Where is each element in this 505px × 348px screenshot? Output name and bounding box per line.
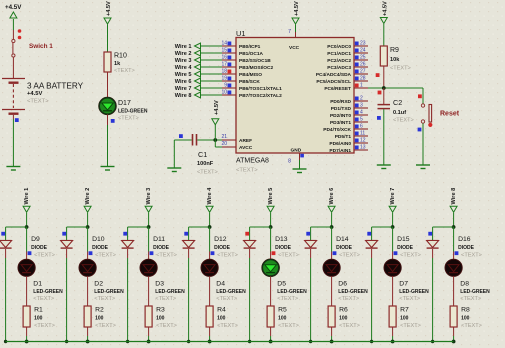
svg-text:<TEXT>: <TEXT> (338, 296, 359, 302)
svg-text:GND: GND (291, 148, 302, 154)
svg-text:<TEXT>: <TEXT> (400, 253, 421, 259)
svg-text:PD5/T1: PD5/T1 (335, 134, 352, 140)
svg-text:18: 18 (221, 69, 227, 75)
svg-text:PB5/SCK: PB5/SCK (239, 79, 260, 85)
svg-text:D17: D17 (118, 100, 131, 107)
svg-text:19: 19 (221, 76, 227, 82)
svg-text:100: 100 (34, 316, 43, 322)
svg-text:D7: D7 (399, 281, 408, 288)
svg-text:Wire 2: Wire 2 (175, 51, 192, 57)
svg-text:<TEXT>: <TEXT> (400, 323, 421, 329)
svg-text:DIODE: DIODE (458, 245, 475, 251)
svg-text:PC5/ADC5/SCL: PC5/ADC5/SCL (316, 79, 351, 85)
svg-text:D12: D12 (214, 236, 227, 243)
svg-text:100: 100 (461, 316, 470, 322)
svg-text:D2: D2 (94, 281, 103, 288)
svg-text:R7: R7 (400, 307, 409, 314)
svg-text:100: 100 (156, 316, 165, 322)
svg-text:<TEXT>: <TEXT> (236, 168, 258, 174)
svg-text:<TEXT>: <TEXT> (278, 323, 299, 329)
svg-text:AREF: AREF (239, 138, 252, 144)
svg-text:R2: R2 (95, 307, 104, 314)
svg-text:<TEXT>: <TEXT> (399, 296, 420, 302)
svg-text:VCC: VCC (289, 45, 300, 51)
svg-text:16: 16 (221, 55, 227, 61)
svg-text:Wire 1: Wire 1 (175, 44, 192, 50)
svg-text:<TEXT>: <TEXT> (217, 323, 238, 329)
svg-text:DIODE: DIODE (275, 245, 292, 251)
svg-text:PD3/INT1: PD3/INT1 (330, 120, 351, 126)
svg-text:Wire 3: Wire 3 (175, 58, 192, 64)
svg-text:100: 100 (217, 316, 226, 322)
svg-text:<TEXT>: <TEXT> (156, 253, 177, 259)
svg-text:D13: D13 (275, 236, 288, 243)
svg-text:4: 4 (360, 110, 363, 116)
svg-text:+4.5V: +4.5V (382, 1, 388, 16)
svg-text:<TEXT>: <TEXT> (461, 253, 482, 259)
svg-text:<TEXT>: <TEXT> (277, 296, 298, 302)
svg-text:<TEXT>: <TEXT> (339, 323, 360, 329)
svg-text:DIODE: DIODE (397, 245, 414, 251)
svg-text:D10: D10 (92, 236, 105, 243)
svg-text:R8: R8 (461, 307, 470, 314)
svg-text:10k: 10k (390, 57, 400, 63)
svg-text:DIODE: DIODE (31, 245, 47, 251)
svg-text:D6: D6 (338, 281, 347, 288)
svg-text:PC4/ADC4/SDA: PC4/ADC4/SDA (316, 72, 352, 78)
svg-text:100: 100 (278, 316, 287, 322)
svg-text:PC0/ADC0: PC0/ADC0 (327, 44, 351, 50)
svg-text:<TEXT>: <TEXT> (27, 99, 49, 105)
svg-text:D3: D3 (155, 281, 164, 288)
svg-text:<TEXT>: <TEXT> (217, 253, 238, 259)
svg-text:100nF: 100nF (197, 161, 214, 167)
svg-text:+4.5V: +4.5V (27, 91, 42, 97)
svg-text:10: 10 (221, 90, 227, 96)
svg-text:AVCC: AVCC (239, 145, 253, 151)
svg-text:28: 28 (360, 76, 366, 82)
svg-text:+4.5V: +4.5V (214, 100, 220, 115)
svg-text:R1: R1 (34, 307, 43, 314)
svg-text:D4: D4 (216, 281, 225, 288)
svg-text:DIODE: DIODE (92, 245, 109, 251)
svg-text:14: 14 (221, 41, 227, 47)
svg-text:+4.5V: +4.5V (106, 1, 112, 16)
svg-text:LED-GREEN: LED-GREEN (155, 289, 185, 295)
svg-text:12: 12 (360, 138, 366, 144)
svg-text:9: 9 (224, 83, 227, 89)
svg-text:<TEXT>: <TEXT> (393, 118, 414, 124)
svg-text:PD7/AIN1: PD7/AIN1 (329, 148, 351, 154)
svg-text:13: 13 (360, 145, 366, 151)
svg-text:PB6/TOSC1/XTAL1: PB6/TOSC1/XTAL1 (239, 86, 282, 92)
svg-text:Wire 1: Wire 1 (24, 188, 30, 205)
svg-text:Wire 6: Wire 6 (175, 79, 192, 85)
svg-text:Wire 8: Wire 8 (175, 93, 192, 99)
svg-text:<TEXT>: <TEXT> (197, 170, 218, 176)
svg-text:PD2/INT0: PD2/INT0 (330, 113, 351, 119)
svg-text:PC3/ADC3: PC3/ADC3 (327, 65, 351, 71)
svg-text:D14: D14 (336, 236, 349, 243)
svg-text:C1: C1 (198, 150, 207, 159)
svg-text:Wire 8: Wire 8 (451, 188, 457, 205)
svg-text:24: 24 (360, 48, 366, 54)
svg-text:<TEXT>: <TEXT> (339, 253, 360, 259)
svg-text:11: 11 (360, 131, 365, 137)
svg-text:Wire 2: Wire 2 (85, 188, 91, 205)
svg-text:<TEXT>: <TEXT> (460, 296, 481, 302)
svg-text:Wire 4: Wire 4 (207, 187, 213, 205)
svg-text:<TEXT>: <TEXT> (461, 323, 482, 329)
svg-text:R3: R3 (156, 307, 165, 314)
svg-text:<TEXT>: <TEXT> (94, 296, 115, 302)
svg-text:2: 2 (360, 96, 363, 102)
svg-text:+4.5V: +4.5V (5, 4, 22, 11)
svg-text:100: 100 (400, 316, 409, 322)
svg-text:Wire 7: Wire 7 (175, 86, 192, 92)
svg-text:<TEXT>: <TEXT> (156, 323, 177, 329)
svg-text:+4.5V: +4.5V (294, 1, 300, 16)
svg-text:Wire 5: Wire 5 (175, 72, 192, 78)
svg-text:PB2/SS/OC1B: PB2/SS/OC1B (239, 58, 271, 64)
svg-text:Reset: Reset (440, 111, 460, 118)
svg-text:<TEXT>: <TEXT> (114, 68, 135, 74)
svg-text:PC6/RESET: PC6/RESET (324, 86, 351, 92)
svg-text:PB4/MISO: PB4/MISO (239, 72, 262, 78)
svg-text:R6: R6 (339, 307, 348, 314)
svg-text:PB7/TOSC2/XTAL2: PB7/TOSC2/XTAL2 (239, 93, 282, 99)
svg-text:6: 6 (360, 124, 363, 130)
svg-text:R10: R10 (114, 53, 127, 60)
svg-text:D5: D5 (277, 281, 286, 288)
svg-text:LED-GREEN: LED-GREEN (118, 109, 148, 115)
svg-text:PC1/ADC1: PC1/ADC1 (327, 51, 351, 57)
svg-text:1: 1 (360, 83, 363, 89)
svg-text:25: 25 (360, 55, 366, 61)
svg-text:27: 27 (360, 69, 366, 75)
svg-text:LED-GREEN: LED-GREEN (94, 289, 124, 295)
svg-text:Wire 5: Wire 5 (268, 188, 274, 205)
svg-text:<TEXT>: <TEXT> (278, 253, 299, 259)
svg-text:1k: 1k (114, 61, 121, 67)
svg-text:DIODE: DIODE (153, 245, 170, 251)
svg-text:26: 26 (360, 62, 366, 68)
svg-text:<TEXT>: <TEXT> (95, 253, 116, 259)
svg-text:Wire 4: Wire 4 (175, 65, 193, 71)
svg-text:D16: D16 (458, 236, 471, 243)
svg-text:PC2/ADC2: PC2/ADC2 (327, 58, 351, 64)
svg-text:LED-GREEN: LED-GREEN (460, 289, 490, 295)
svg-text:<TEXT>: <TEXT> (33, 296, 54, 302)
svg-text:100: 100 (95, 316, 104, 322)
svg-text:R4: R4 (217, 307, 226, 314)
svg-text:PB3/MOSI/OC2: PB3/MOSI/OC2 (239, 65, 273, 71)
svg-text:3: 3 (360, 103, 363, 109)
svg-text:<TEXT>: <TEXT> (390, 66, 411, 72)
svg-text:C2: C2 (393, 98, 402, 107)
svg-text:PB1/OC1A: PB1/OC1A (239, 51, 264, 57)
svg-text:Wire 6: Wire 6 (329, 188, 335, 205)
svg-text:ATMEGA8: ATMEGA8 (236, 158, 269, 165)
svg-text:D8: D8 (460, 281, 469, 288)
svg-text:Wire 3: Wire 3 (146, 188, 152, 205)
svg-text:LED-GREEN: LED-GREEN (338, 289, 368, 295)
svg-text:5: 5 (360, 117, 363, 123)
svg-text:7: 7 (288, 29, 291, 35)
svg-text:D15: D15 (397, 236, 410, 243)
svg-text:LED-GREEN: LED-GREEN (216, 289, 246, 295)
svg-text:LED-GREEN: LED-GREEN (399, 289, 429, 295)
svg-text:8: 8 (288, 159, 291, 165)
svg-text:<TEXT>: <TEXT> (155, 296, 176, 302)
svg-text:U1: U1 (236, 29, 245, 38)
svg-text:PD4/T0/XCK: PD4/T0/XCK (323, 127, 351, 133)
svg-text:3 AA BATTERY: 3 AA BATTERY (27, 82, 84, 91)
svg-text:LED-GREEN: LED-GREEN (277, 289, 307, 295)
svg-text:Wire 7: Wire 7 (390, 188, 396, 205)
svg-text:DIODE: DIODE (336, 245, 353, 251)
svg-text:100: 100 (339, 316, 348, 322)
svg-text:D9: D9 (31, 236, 40, 243)
svg-text:<TEXT>: <TEXT> (216, 296, 237, 302)
svg-text:PB0/ICP1: PB0/ICP1 (239, 44, 261, 50)
svg-text:D1: D1 (33, 281, 42, 288)
svg-text:PD6/AIN0: PD6/AIN0 (329, 141, 351, 147)
svg-text:R5: R5 (278, 307, 287, 314)
svg-text:PD0/RXD: PD0/RXD (330, 99, 351, 105)
svg-text:R9: R9 (390, 47, 399, 54)
svg-text:20: 20 (221, 141, 227, 147)
svg-text:<TEXT>: <TEXT> (34, 323, 55, 329)
svg-text:<TEXT>: <TEXT> (34, 253, 55, 259)
svg-text:LED-GREEN: LED-GREEN (33, 289, 63, 295)
svg-text:PD1/TXD: PD1/TXD (331, 106, 352, 112)
svg-text:DIODE: DIODE (214, 245, 231, 251)
svg-text:Swich 1: Swich 1 (29, 43, 53, 50)
svg-text:0.1uf: 0.1uf (393, 110, 406, 116)
svg-text:D11: D11 (153, 236, 165, 243)
svg-text:<TEXT>: <TEXT> (95, 323, 116, 329)
svg-text:23: 23 (360, 41, 366, 47)
svg-text:21: 21 (221, 134, 227, 140)
svg-text:<TEXT>: <TEXT> (118, 116, 139, 122)
svg-text:17: 17 (221, 62, 227, 68)
svg-text:15: 15 (221, 48, 227, 54)
